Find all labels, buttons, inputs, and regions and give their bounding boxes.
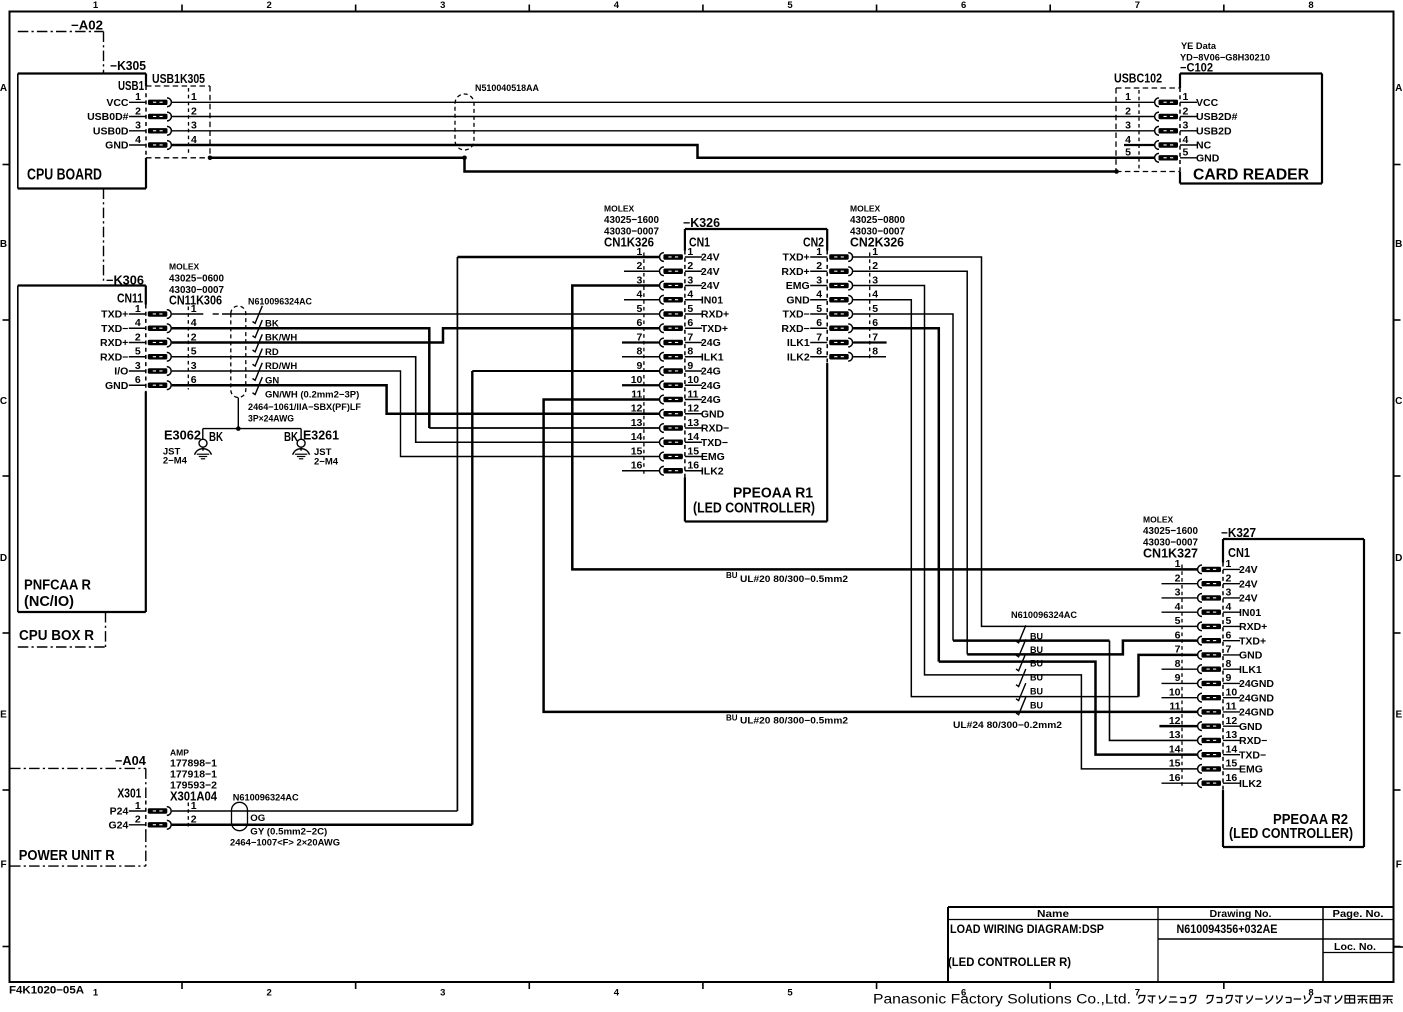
svg-text:D: D (0, 553, 7, 564)
svg-text:43025−1600: 43025−1600 (1143, 525, 1198, 537)
svg-text:7: 7 (687, 331, 693, 343)
svg-text:3: 3 (440, 0, 445, 11)
svg-text:14: 14 (1226, 743, 1238, 755)
svg-text:I/O: I/O (114, 366, 128, 378)
svg-text:13: 13 (1226, 729, 1238, 741)
svg-text:(LED CONTROLLER R): (LED CONTROLLER R) (948, 955, 1071, 969)
svg-text:UL#24 80/300−0.2mm2: UL#24 80/300−0.2mm2 (953, 720, 1062, 731)
svg-text:16: 16 (1226, 772, 1238, 784)
svg-text:4: 4 (1183, 134, 1189, 146)
svg-text:1: 1 (191, 800, 197, 812)
svg-text:7: 7 (1135, 0, 1140, 11)
svg-text:7: 7 (1175, 644, 1181, 656)
svg-text:E: E (1395, 710, 1402, 721)
svg-text:POWER UNIT R: POWER UNIT R (19, 848, 115, 864)
svg-text:2: 2 (816, 260, 822, 272)
svg-text:3: 3 (1175, 587, 1181, 599)
svg-text:8: 8 (687, 346, 693, 358)
svg-text:Drawing No.: Drawing No. (1210, 908, 1272, 920)
svg-text:MOLEX: MOLEX (850, 204, 881, 214)
svg-text:5: 5 (787, 0, 793, 11)
svg-text:−A04: −A04 (115, 754, 146, 768)
svg-text:N610096324AC: N610096324AC (248, 297, 312, 308)
svg-text:GND: GND (786, 294, 810, 306)
svg-text:RD/WH: RD/WH (265, 361, 297, 372)
svg-text:2: 2 (1175, 572, 1181, 584)
svg-text:4: 4 (1226, 601, 1232, 613)
svg-text:11: 11 (1169, 701, 1180, 713)
svg-text:P24: P24 (110, 806, 129, 818)
svg-text:GY (0.5mm2−2C): GY (0.5mm2−2C) (250, 826, 327, 837)
svg-text:RXD+: RXD+ (1239, 621, 1267, 633)
svg-text:YE Data: YE Data (1181, 41, 1217, 52)
svg-text:13: 13 (1169, 729, 1181, 741)
svg-text:TXD+: TXD+ (701, 323, 728, 335)
svg-text:2: 2 (1125, 105, 1131, 117)
svg-text:8: 8 (1308, 0, 1313, 11)
svg-text:X301: X301 (117, 787, 141, 801)
svg-text:USB1K305: USB1K305 (152, 72, 205, 86)
svg-text:13: 13 (631, 417, 643, 429)
svg-text:9: 9 (1226, 672, 1232, 684)
svg-text:TXD+: TXD+ (783, 252, 810, 264)
svg-text:4: 4 (614, 988, 620, 999)
svg-text:2: 2 (1183, 105, 1189, 117)
svg-text:15: 15 (1226, 758, 1238, 770)
svg-text:15: 15 (631, 445, 643, 457)
svg-text:3P×24AWG: 3P×24AWG (248, 414, 294, 425)
svg-text:BU: BU (1030, 701, 1043, 711)
svg-text:1: 1 (135, 303, 141, 315)
svg-text:24G: 24G (701, 380, 721, 392)
svg-text:3: 3 (440, 988, 445, 999)
svg-text:5: 5 (872, 303, 878, 315)
svg-text:BU: BU (1030, 659, 1043, 669)
svg-text:3: 3 (1183, 120, 1189, 132)
svg-text:BU: BU (1030, 632, 1043, 642)
svg-text:1: 1 (687, 246, 693, 258)
svg-text:E3261: E3261 (303, 429, 339, 443)
svg-text:−K305: −K305 (110, 59, 146, 73)
svg-text:Page. No.: Page. No. (1333, 908, 1384, 920)
svg-text:RXD−: RXD− (100, 351, 128, 363)
svg-text:CN1K326: CN1K326 (604, 236, 654, 250)
svg-text:BU: BU (726, 714, 738, 723)
svg-text:MOLEX: MOLEX (1143, 515, 1174, 525)
svg-text:A: A (0, 83, 7, 94)
svg-text:15: 15 (1169, 758, 1181, 770)
svg-text:E3062: E3062 (164, 429, 201, 443)
svg-text:USB0D: USB0D (93, 125, 129, 137)
svg-text:3: 3 (872, 274, 878, 286)
svg-text:Loc. No.: Loc. No. (1334, 941, 1376, 953)
svg-text:EMG: EMG (786, 280, 810, 292)
svg-text:12: 12 (687, 403, 699, 415)
svg-text:1: 1 (1125, 91, 1131, 103)
svg-text:12: 12 (1226, 715, 1238, 727)
svg-text:13: 13 (687, 417, 699, 429)
svg-text:43025−0800: 43025−0800 (850, 214, 905, 226)
svg-text:7: 7 (1226, 644, 1232, 656)
svg-text:2: 2 (135, 331, 141, 343)
svg-text:E: E (0, 710, 7, 721)
svg-text:5: 5 (1175, 615, 1181, 627)
svg-text:4: 4 (816, 289, 822, 301)
svg-text:1: 1 (93, 988, 99, 999)
svg-text:RXD+: RXD+ (701, 309, 729, 321)
svg-text:12: 12 (631, 403, 643, 415)
svg-text:4: 4 (1175, 601, 1181, 613)
svg-text:IN01: IN01 (701, 294, 723, 306)
svg-text:−K327: −K327 (1221, 526, 1256, 540)
svg-text:5: 5 (1226, 615, 1232, 627)
svg-text:USB2D: USB2D (1196, 125, 1232, 137)
svg-text:(LED CONTROLLER): (LED CONTROLLER) (693, 501, 815, 517)
svg-text:GN/WH (0.2mm2−3P): GN/WH (0.2mm2−3P) (265, 390, 359, 401)
svg-text:BK/WH: BK/WH (265, 333, 297, 344)
svg-text:MOLEX: MOLEX (604, 204, 635, 214)
svg-text:BU: BU (1030, 673, 1043, 683)
svg-text:16: 16 (1169, 772, 1181, 784)
svg-text:2464−1061/IIA−SBX(PF)LF: 2464−1061/IIA−SBX(PF)LF (248, 402, 361, 413)
svg-text:1: 1 (93, 0, 99, 11)
svg-text:PPEOAA R1: PPEOAA R1 (733, 486, 813, 502)
svg-text:1: 1 (1175, 558, 1181, 570)
svg-text:24V: 24V (701, 252, 720, 264)
svg-text:TXD+: TXD+ (1239, 635, 1266, 647)
svg-text:9: 9 (637, 360, 643, 372)
svg-text:1: 1 (816, 246, 822, 258)
svg-text:Panasonic Factory Solutions Co: Panasonic Factory Solutions Co.,Ltd. (873, 992, 1131, 1007)
svg-text:8: 8 (872, 346, 878, 358)
svg-text:2: 2 (135, 814, 141, 826)
svg-text:43025−1600: 43025−1600 (604, 214, 659, 226)
svg-text:9: 9 (687, 360, 693, 372)
svg-text:24V: 24V (1239, 564, 1258, 576)
svg-text:10: 10 (1169, 686, 1181, 698)
svg-text:UL#20 80/300−0.5mm2: UL#20 80/300−0.5mm2 (740, 574, 848, 585)
svg-text:15: 15 (687, 445, 699, 457)
svg-text:F: F (0, 860, 6, 871)
svg-text:C: C (0, 396, 7, 407)
svg-text:ILK1: ILK1 (1239, 664, 1262, 676)
svg-text:6: 6 (1226, 629, 1232, 641)
svg-text:3: 3 (1125, 120, 1131, 132)
svg-text:IN01: IN01 (1239, 607, 1261, 619)
svg-text:ILK2: ILK2 (787, 351, 810, 363)
svg-text:−K326: −K326 (683, 216, 720, 230)
svg-text:2−M4: 2−M4 (314, 457, 339, 468)
svg-text:1: 1 (1226, 558, 1232, 570)
svg-text:16: 16 (631, 460, 643, 472)
svg-text:GN: GN (265, 375, 279, 386)
svg-text:16: 16 (687, 460, 699, 472)
svg-text:24G: 24G (701, 337, 721, 349)
svg-text:NC: NC (1196, 140, 1212, 152)
svg-text:3: 3 (1226, 587, 1232, 599)
svg-text:BU: BU (1030, 645, 1043, 655)
svg-text:VCC: VCC (1196, 97, 1219, 109)
svg-text:5: 5 (687, 303, 693, 315)
svg-text:24GND: 24GND (1239, 692, 1274, 704)
svg-text:3: 3 (135, 120, 141, 132)
svg-text:ILK1: ILK1 (701, 351, 724, 363)
svg-text:CARD READER: CARD READER (1193, 167, 1309, 184)
svg-text:RXD+: RXD+ (781, 266, 809, 278)
svg-text:C: C (1395, 396, 1402, 407)
svg-text:24GND: 24GND (1239, 707, 1274, 719)
svg-text:ILK2: ILK2 (701, 465, 724, 477)
svg-text:N610096324AC: N610096324AC (1011, 610, 1077, 621)
svg-text:11: 11 (1226, 701, 1237, 713)
svg-text:8: 8 (637, 346, 643, 358)
svg-text:4: 4 (687, 289, 693, 301)
svg-text:RD: RD (265, 347, 279, 358)
svg-text:5: 5 (816, 303, 822, 315)
svg-text:5: 5 (135, 346, 141, 358)
svg-text:5: 5 (191, 346, 197, 358)
svg-text:−C102: −C102 (1180, 61, 1213, 75)
svg-text:24V: 24V (701, 266, 720, 278)
svg-text:24V: 24V (701, 280, 720, 292)
svg-text:PNFCAA R: PNFCAA R (24, 578, 91, 594)
svg-text:3: 3 (816, 274, 822, 286)
svg-text:11: 11 (687, 388, 698, 400)
svg-text:24V: 24V (1239, 593, 1258, 605)
svg-text:(NC/IO): (NC/IO) (24, 594, 74, 610)
svg-text:2: 2 (687, 260, 693, 272)
svg-text:10: 10 (687, 374, 699, 386)
svg-text:BU: BU (1030, 687, 1043, 697)
svg-text:8: 8 (1175, 658, 1181, 670)
svg-text:6: 6 (637, 317, 643, 329)
svg-text:BK: BK (265, 318, 279, 329)
svg-text:TXD−: TXD− (701, 437, 728, 449)
svg-text:24GND: 24GND (1239, 678, 1274, 690)
svg-text:CPU BOX R: CPU BOX R (19, 628, 94, 644)
svg-text:4: 4 (872, 289, 878, 301)
svg-text:24G: 24G (701, 366, 721, 378)
svg-text:14: 14 (687, 431, 699, 443)
svg-text:LOAD WIRING DIAGRAM:DSP: LOAD WIRING DIAGRAM:DSP (950, 922, 1104, 936)
svg-text:43025−0600: 43025−0600 (169, 273, 224, 285)
svg-text:RXD−: RXD− (1239, 735, 1267, 747)
svg-text:B: B (1395, 239, 1402, 250)
svg-text:EMG: EMG (701, 451, 725, 463)
svg-text:GND: GND (105, 380, 129, 392)
svg-text:3: 3 (191, 120, 197, 132)
svg-text:3: 3 (687, 274, 693, 286)
svg-text:8: 8 (816, 346, 822, 358)
svg-text:UL#20 80/300−0.5mm2: UL#20 80/300−0.5mm2 (740, 716, 848, 727)
svg-text:BK: BK (209, 430, 223, 444)
svg-text:MOLEX: MOLEX (169, 262, 200, 272)
svg-text:TXD+: TXD+ (101, 309, 128, 321)
svg-text:N610094356+032AE: N610094356+032AE (1177, 922, 1278, 936)
svg-text:BK: BK (284, 430, 298, 444)
svg-text:1: 1 (135, 800, 141, 812)
svg-text:10: 10 (1226, 686, 1238, 698)
svg-text:1: 1 (872, 246, 878, 258)
svg-text:6: 6 (961, 0, 966, 11)
svg-text:D: D (1395, 553, 1402, 564)
svg-text:4: 4 (637, 289, 643, 301)
svg-text:2: 2 (191, 105, 197, 117)
svg-text:F: F (1396, 860, 1402, 871)
svg-text:Name: Name (1037, 908, 1069, 920)
svg-text:1: 1 (135, 91, 141, 103)
svg-text:4: 4 (135, 134, 141, 146)
svg-text:6: 6 (816, 317, 822, 329)
svg-text:2−M4: 2−M4 (163, 456, 188, 467)
svg-text:7: 7 (816, 331, 822, 343)
svg-text:6: 6 (135, 374, 141, 386)
svg-text:4: 4 (614, 0, 620, 11)
svg-text:B: B (0, 239, 7, 250)
svg-text:6: 6 (1175, 629, 1181, 641)
svg-text:CPU BOARD: CPU BOARD (27, 167, 102, 184)
svg-text:BU: BU (726, 571, 738, 580)
svg-text:−A02: −A02 (71, 19, 103, 33)
svg-text:TXD−: TXD− (101, 323, 128, 335)
svg-text:ILK2: ILK2 (1239, 778, 1262, 790)
svg-text:14: 14 (1169, 743, 1181, 755)
svg-text:ILK1: ILK1 (787, 337, 810, 349)
svg-text:USBC102: USBC102 (1114, 72, 1162, 86)
svg-text:TXD−: TXD− (1239, 749, 1266, 761)
svg-text:TXD−: TXD− (783, 309, 810, 321)
svg-text:OG: OG (250, 813, 265, 824)
svg-text:A: A (1395, 83, 1402, 94)
svg-text:USB2D#: USB2D# (1196, 111, 1238, 123)
svg-text:5: 5 (1125, 147, 1131, 159)
svg-text:2: 2 (872, 260, 878, 272)
svg-text:GND: GND (105, 140, 129, 152)
svg-text:4: 4 (135, 317, 141, 329)
svg-text:24G: 24G (701, 394, 721, 406)
svg-text:CN1K327: CN1K327 (1143, 547, 1198, 561)
svg-text:5: 5 (787, 988, 793, 999)
svg-text:14: 14 (631, 431, 643, 443)
svg-text:2: 2 (1226, 572, 1232, 584)
svg-text:24V: 24V (1239, 578, 1258, 590)
svg-text:5: 5 (637, 303, 643, 315)
svg-text:AMP: AMP (170, 748, 189, 758)
svg-text:5: 5 (1183, 147, 1189, 159)
svg-text:2: 2 (266, 0, 271, 11)
svg-text:6: 6 (687, 317, 693, 329)
svg-text:N510040518AA: N510040518AA (475, 83, 539, 94)
svg-text:1: 1 (191, 303, 197, 315)
svg-text:3: 3 (191, 360, 197, 372)
svg-text:2: 2 (266, 988, 271, 999)
svg-text:1: 1 (1183, 91, 1189, 103)
svg-text:G24: G24 (108, 819, 128, 831)
svg-text:(LED CONTROLLER): (LED CONTROLLER) (1229, 826, 1353, 842)
svg-text:RXD+: RXD+ (100, 337, 128, 349)
svg-text:GND: GND (1239, 721, 1263, 733)
svg-text:8: 8 (1226, 658, 1232, 670)
svg-text:2: 2 (135, 105, 141, 117)
svg-text:EMG: EMG (1239, 764, 1263, 776)
svg-text:GND: GND (701, 408, 725, 420)
svg-text:2464−1007<F> 2×20AWG: 2464−1007<F> 2×20AWG (230, 837, 340, 848)
svg-text:USB0D#: USB0D# (87, 111, 129, 123)
svg-text:N610096324AC: N610096324AC (233, 793, 299, 804)
svg-text:9: 9 (1175, 672, 1181, 684)
svg-text:GND: GND (1196, 152, 1220, 164)
svg-text:2: 2 (637, 260, 643, 272)
svg-text:GND: GND (1239, 650, 1263, 662)
svg-text:3: 3 (135, 360, 141, 372)
svg-text:RXD−: RXD− (781, 323, 809, 335)
svg-text:VCC: VCC (106, 97, 129, 109)
svg-text:RXD−: RXD− (701, 423, 729, 435)
svg-text:1: 1 (191, 91, 197, 103)
svg-text:F4K1020−05A: F4K1020−05A (9, 985, 84, 997)
